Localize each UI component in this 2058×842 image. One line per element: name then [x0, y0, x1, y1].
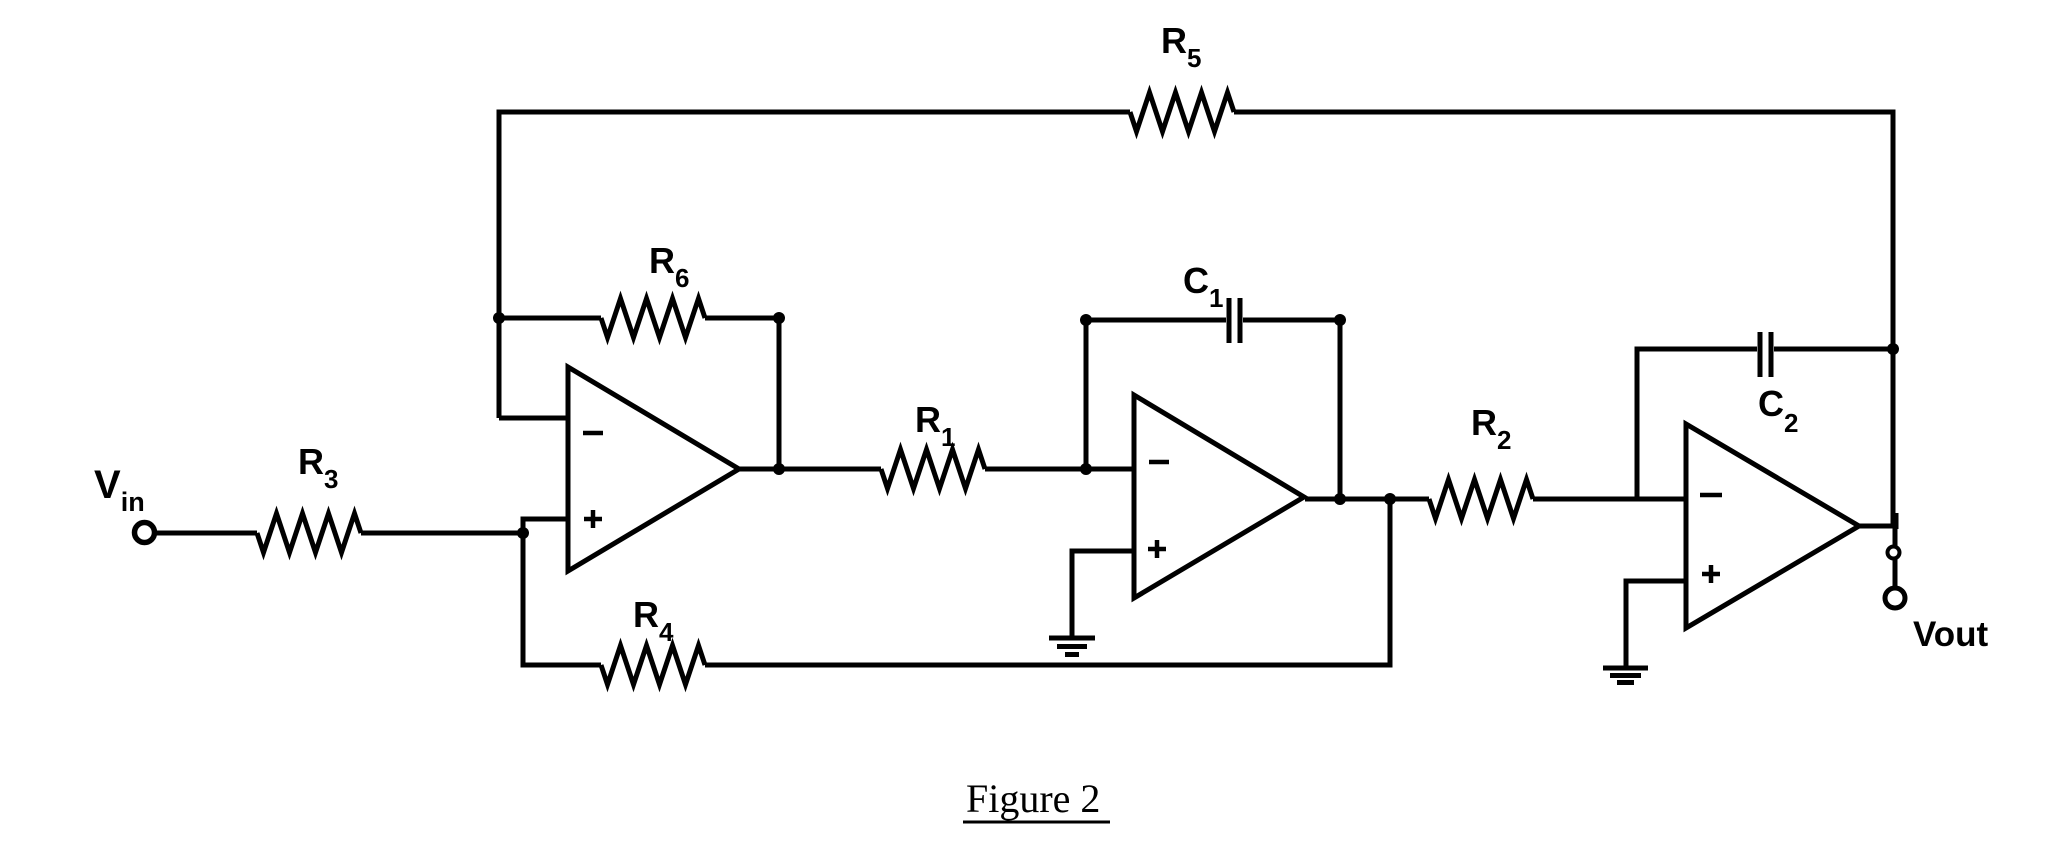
- svg-text:R6: R6: [649, 240, 689, 293]
- svg-text:Figure 2: Figure 2: [966, 776, 1100, 821]
- svg-text:R3: R3: [298, 441, 338, 494]
- svg-text:C2: C2: [1758, 383, 1798, 438]
- svg-text:R4: R4: [633, 594, 674, 647]
- svg-text:Vout: Vout: [1913, 615, 1989, 654]
- svg-text:Vin: Vin: [94, 463, 145, 517]
- svg-text:R5: R5: [1161, 20, 1201, 73]
- svg-text:R2: R2: [1471, 402, 1511, 455]
- svg-text:C1: C1: [1183, 260, 1223, 313]
- svg-text:R1: R1: [915, 399, 955, 452]
